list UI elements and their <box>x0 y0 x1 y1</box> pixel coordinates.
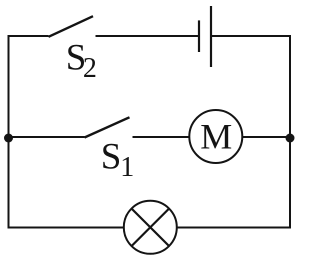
wire: lamp to bottom-right corner <box>176 227 290 229</box>
wire: right vertical <box>289 35 291 229</box>
wire: top-left segment to switch S2 <box>8 35 49 37</box>
node: right junction dot <box>286 134 295 143</box>
svg-text:M: M <box>200 117 232 157</box>
lamp cross line 1 <box>132 209 169 246</box>
wire: motor to right vertical <box>242 136 290 138</box>
switch S1 blade (open) <box>85 117 130 137</box>
lamp cross line 2 <box>132 209 169 246</box>
battery long plate (positive) <box>210 6 212 67</box>
motor U1 circle <box>189 110 242 163</box>
svg-text:S: S <box>101 137 122 178</box>
wire: battery to top-right corner <box>211 35 291 37</box>
wire: left vertical <box>8 35 10 229</box>
battery short plate (negative) <box>198 20 200 52</box>
svg-text:2: 2 <box>83 53 97 84</box>
wire: bottom-left segment to lamp <box>9 227 125 229</box>
svg-text:1: 1 <box>120 152 134 183</box>
wire: middle-left segment to switch S1 <box>9 136 85 138</box>
wire: switch S1 to motor <box>133 136 191 138</box>
lamp circle <box>124 201 177 254</box>
switch S2 blade (open) <box>49 16 94 37</box>
node: left junction dot <box>4 134 13 143</box>
wire: switch S2 to battery <box>96 35 200 37</box>
